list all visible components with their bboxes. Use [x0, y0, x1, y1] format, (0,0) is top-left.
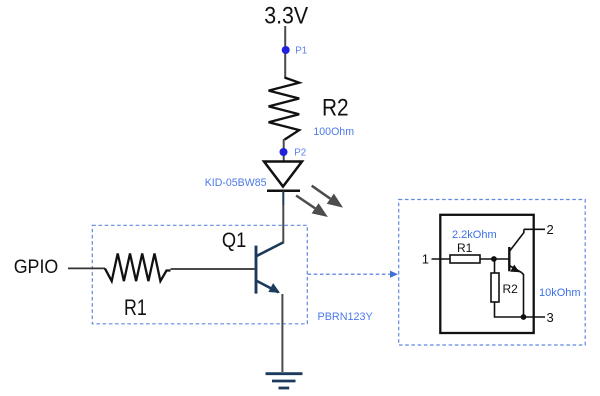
svg-text:2: 2 — [547, 222, 554, 237]
wire LED cathode to Q1 collector — [282, 204, 284, 244]
detail: wire emitter down to pin3 node — [522, 273, 524, 318]
detail: wire R2 bottom to pin3 rail — [495, 302, 524, 317]
svg-text:3.3V: 3.3V — [264, 1, 309, 28]
transistor package part label PBRN123Y — [318, 311, 373, 323]
svg-text:100Ohm: 100Ohm — [313, 126, 354, 138]
detail: pin 3 label — [547, 310, 554, 325]
svg-text:R2: R2 — [503, 282, 519, 296]
dashed detail view box — [399, 200, 586, 346]
detail: package outline box — [440, 215, 533, 333]
svg-text:KID-05BW85: KID-05BW85 — [205, 177, 267, 189]
resistor R2 designator label — [322, 93, 349, 121]
LED light emission arrow lower — [296, 196, 328, 218]
wire LED cathode lead (navy) — [282, 191, 284, 205]
svg-text:R2: R2 — [322, 93, 349, 121]
detail: resistor R2 label — [503, 282, 519, 296]
detail: resistor R1 box (2.2kOhm) — [450, 255, 480, 263]
node P1 label — [295, 45, 307, 56]
detail: value label 10kOhm — [539, 287, 581, 299]
svg-text:P1: P1 — [295, 45, 307, 56]
node P1 — [282, 46, 290, 54]
wire R1 to Q1 base — [171, 268, 256, 270]
wire 3.3V to P1 to resistor R2 top — [284, 26, 286, 78]
power net 3.3V label — [264, 1, 309, 28]
LED D1 cathode bar — [267, 190, 300, 193]
svg-text:R1: R1 — [457, 241, 473, 255]
svg-text:10kOhm: 10kOhm — [539, 287, 581, 299]
transistor Q1 collector lead — [256, 243, 283, 257]
wire R2 bottom to LED anode — [283, 139, 285, 162]
transistor Q1 emitter lead with arrow — [256, 281, 280, 293]
detail: resistor R1 label — [457, 241, 473, 255]
ground symbol — [266, 374, 303, 388]
svg-text:2.2kOhm: 2.2kOhm — [452, 229, 497, 241]
detail: value label 2.2kOhm — [452, 229, 497, 241]
detail: pin 2 lead wire — [524, 228, 545, 230]
svg-text:PBRN123Y: PBRN123Y — [318, 311, 373, 323]
node P2 — [280, 148, 288, 156]
detail: junction dot at base node — [491, 256, 497, 262]
resistor R2 (100 Ohm) zigzag — [269, 78, 300, 140]
svg-text:1: 1 — [422, 252, 429, 267]
resistor R1 zigzag — [105, 254, 171, 282]
detail: resistor R2 box (10kOhm) — [491, 273, 499, 302]
LED part number label KID-05BW85 — [205, 177, 267, 189]
detail: transistor collector lead — [509, 229, 524, 251]
detail: pin 2 label — [547, 222, 554, 237]
svg-text:Q1: Q1 — [222, 229, 246, 253]
dashed callout connector with arrowhead — [308, 271, 399, 278]
svg-text:GPIO: GPIO — [14, 255, 59, 277]
LED light emission arrow upper — [312, 186, 343, 208]
wire Q1 emitter to ground — [281, 294, 283, 372]
detail: transistor base bar — [508, 247, 510, 271]
svg-text:3: 3 — [547, 310, 554, 325]
detail: junction dot at emitter/pin3 node — [521, 314, 527, 320]
detail: transistor emitter lead with arrow — [509, 265, 521, 273]
detail: pin 1 lead wire — [432, 258, 451, 260]
resistor R1 designator label — [124, 296, 147, 320]
svg-text:R1: R1 — [124, 296, 147, 320]
detail: pin 3 lead wire — [524, 316, 546, 318]
LED D1 triangle — [264, 162, 302, 187]
GPIO net label — [14, 255, 59, 277]
wire GPIO to resistor R1 — [68, 267, 105, 269]
detail: wire base node down to R2 — [494, 259, 496, 273]
detail: wire R1 to base junction — [480, 258, 509, 260]
node P2 label — [294, 148, 306, 159]
resistor R2 value label 100Ohm — [313, 126, 354, 138]
dashed boundary box of transistor package Q1 — [92, 225, 307, 323]
detail: pin 1 label — [422, 252, 429, 267]
transistor Q1 base bar — [255, 246, 258, 294]
transistor Q1 designator label — [222, 229, 246, 253]
svg-text:P2: P2 — [294, 148, 306, 159]
